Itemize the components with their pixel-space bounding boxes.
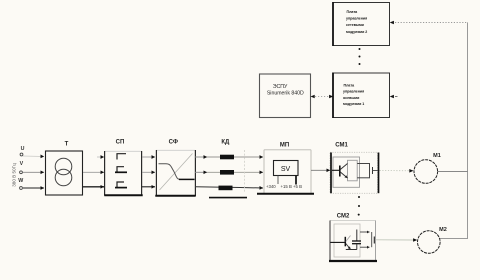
svg-text:МП: МП bbox=[280, 143, 289, 149]
svg-text:V: V bbox=[20, 161, 24, 167]
svg-text:СМ2: СМ2 bbox=[337, 213, 350, 219]
svg-text:управления: управления bbox=[343, 90, 364, 94]
svg-text:модулями 1: модулями 1 bbox=[343, 102, 364, 106]
svg-text:сетевыми: сетевыми bbox=[346, 23, 364, 27]
svg-text:+15 В: +15 В bbox=[281, 184, 292, 189]
svg-text:КД: КД bbox=[221, 140, 230, 146]
svg-text:Плата: Плата bbox=[344, 84, 356, 88]
svg-text:Т: Т bbox=[65, 142, 69, 148]
svg-text:+5 В: +5 В bbox=[293, 184, 302, 189]
svg-text:модулями 2: модулями 2 bbox=[346, 30, 367, 34]
svg-text:СП: СП bbox=[116, 140, 125, 146]
svg-text:ЭСПУ: ЭСПУ bbox=[273, 84, 288, 90]
svg-text:осевыми: осевыми bbox=[343, 96, 359, 100]
svg-text:М2: М2 bbox=[439, 227, 447, 233]
svg-text:СФ: СФ bbox=[169, 140, 178, 146]
svg-text:СМ1: СМ1 bbox=[335, 143, 348, 149]
svg-text:Sinumerik 840D: Sinumerik 840D bbox=[267, 91, 304, 97]
svg-text:+340: +340 bbox=[266, 184, 276, 189]
svg-text:Плата: Плата bbox=[347, 10, 359, 14]
svg-text:SV: SV bbox=[281, 166, 291, 173]
svg-text:W: W bbox=[18, 178, 23, 184]
svg-text:U: U bbox=[21, 146, 25, 152]
svg-text:380 В 50Гц: 380 В 50Гц bbox=[11, 163, 16, 187]
svg-text:управления: управления bbox=[346, 17, 367, 21]
svg-text:М1: М1 bbox=[433, 153, 441, 159]
